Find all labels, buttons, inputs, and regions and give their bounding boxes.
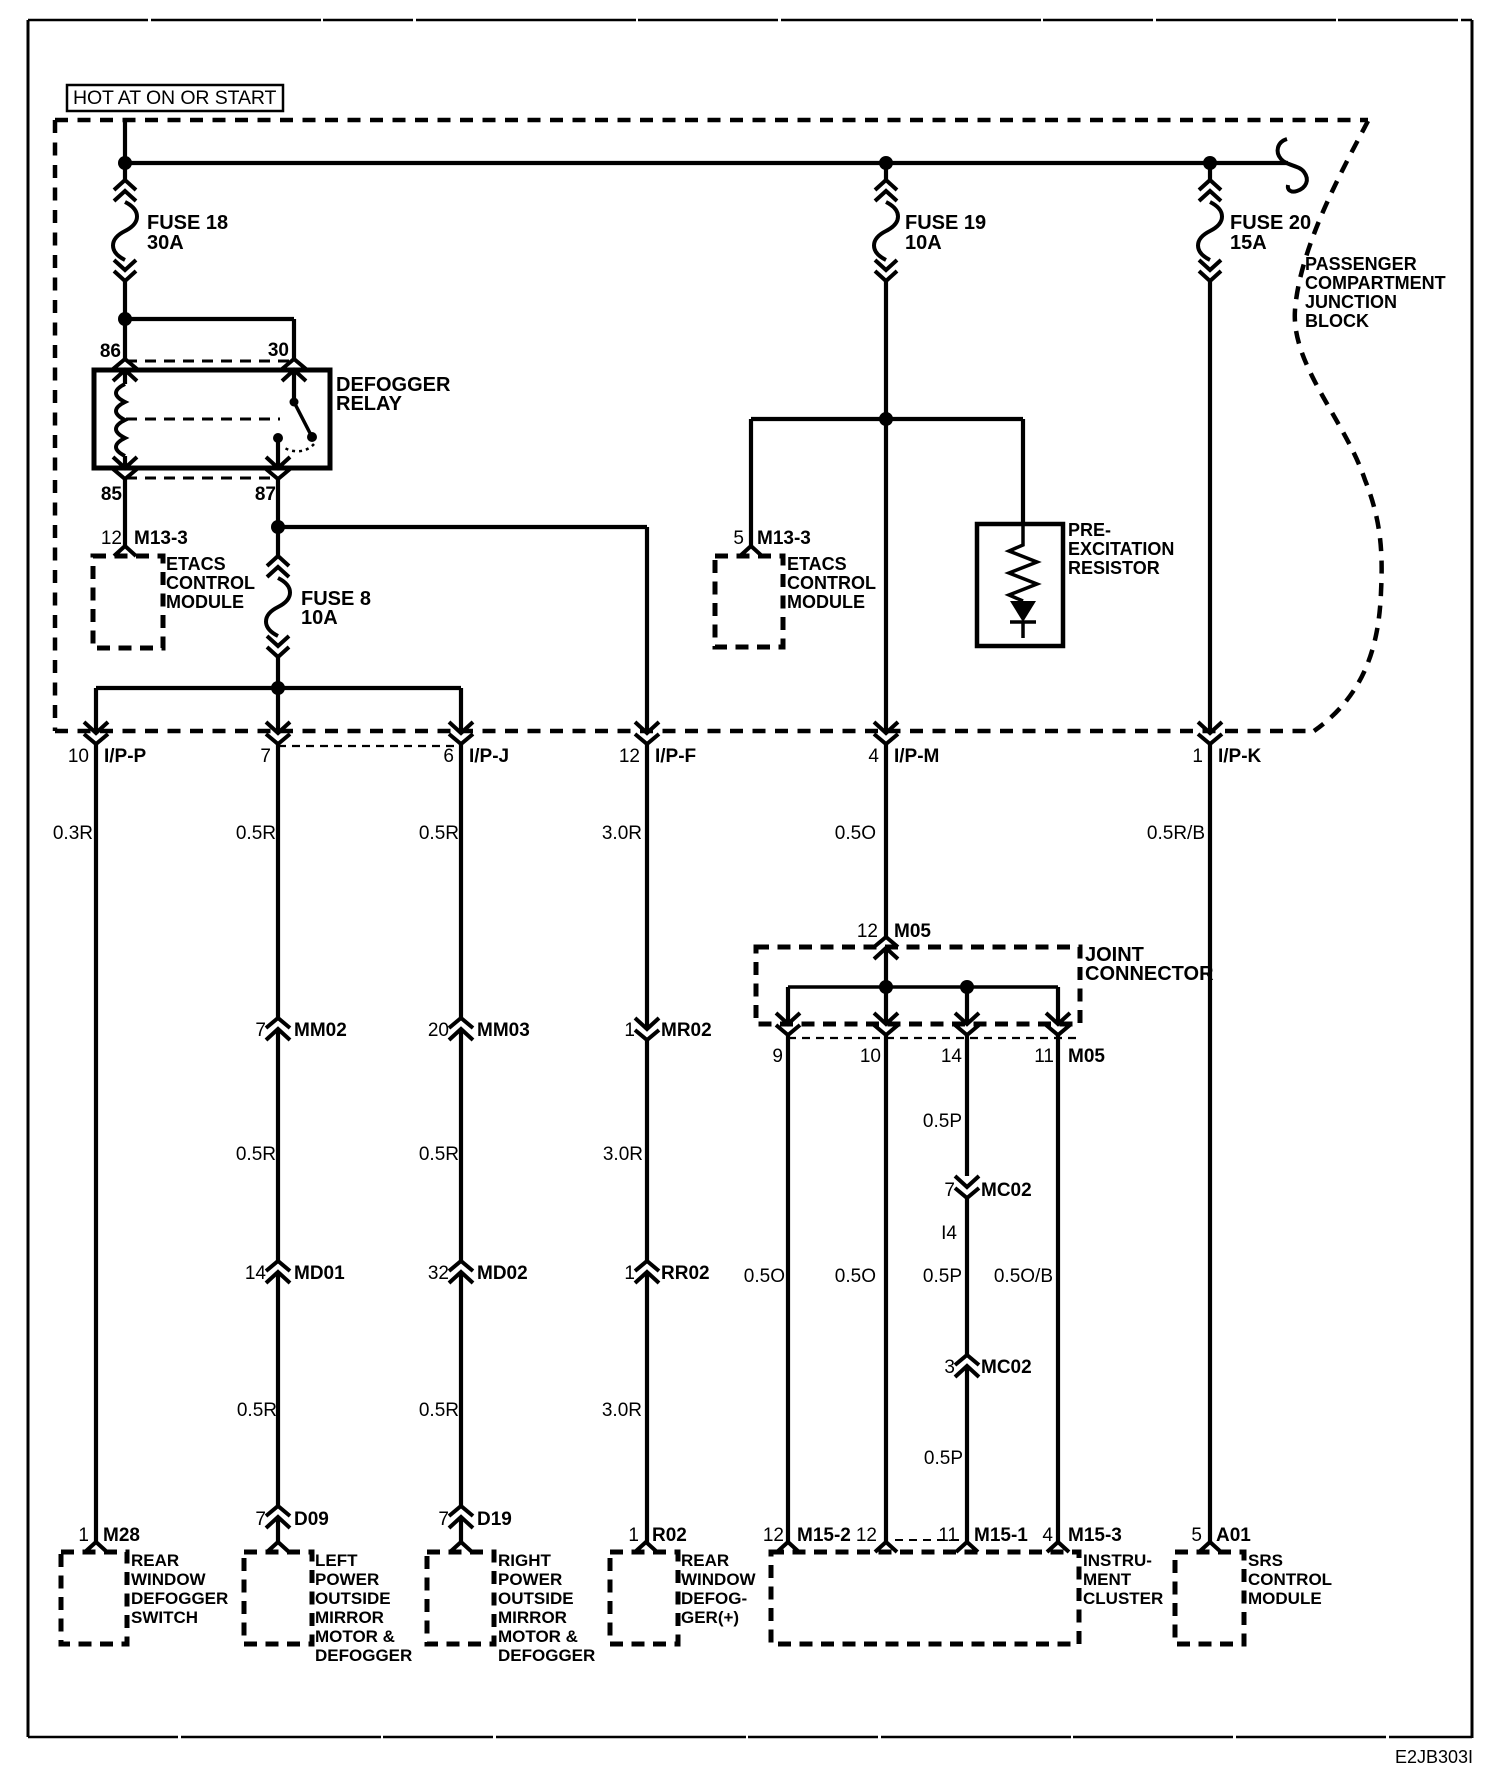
svg-text:4: 4	[868, 746, 879, 767]
svg-text:86: 86	[100, 341, 121, 362]
connector 1 R02	[628, 1525, 686, 1552]
connector 7 I/P	[260, 722, 290, 767]
svg-text:REAR: REAR	[681, 1551, 729, 1570]
svg-text:0.3R: 0.3R	[53, 823, 93, 844]
wire: fuse19 branch to ETACS and resistor	[751, 419, 1023, 546]
wire: main power bus	[125, 161, 1288, 165]
node: 87 branch to I/P-F	[271, 520, 285, 534]
pre-excitation resistor R1	[977, 520, 1174, 646]
svg-text:3.0R: 3.0R	[602, 1400, 642, 1421]
wire: connector body dash	[895, 1539, 962, 1541]
svg-text:10: 10	[860, 1046, 881, 1067]
connector 1 MR02	[624, 1018, 711, 1041]
svg-text:1: 1	[1192, 746, 1203, 767]
wire: branch to I/P-F	[278, 527, 647, 733]
connector 14 MD01	[245, 1261, 345, 1284]
right power outside mirror box	[427, 1551, 595, 1665]
svg-text:3: 3	[944, 1357, 955, 1378]
svg-text:SWITCH: SWITCH	[131, 1608, 198, 1627]
svg-text:3.0R: 3.0R	[603, 1144, 643, 1165]
svg-text:D09: D09	[294, 1509, 329, 1530]
svg-text:FUSE 19: FUSE 19	[905, 212, 986, 234]
svg-text:10A: 10A	[301, 607, 338, 629]
svg-text:CONNECTOR: CONNECTOR	[1085, 963, 1214, 985]
svg-text:1: 1	[78, 1525, 89, 1546]
connector 12 (second)	[856, 1525, 897, 1552]
svg-text:MD01: MD01	[294, 1263, 345, 1284]
svg-text:MENT: MENT	[1083, 1570, 1132, 1589]
fuse 8 10A	[266, 556, 371, 657]
wire: I/P-P to M28 (0.3R)	[94, 744, 98, 1542]
svg-text:0.5O: 0.5O	[835, 823, 876, 844]
label PASSENGER COMPARTMENT JUNCTION BLOCK	[1305, 254, 1446, 331]
svg-text:7: 7	[438, 1509, 449, 1530]
wire: branch to I/P-P and I/P-J	[96, 688, 461, 733]
svg-text:RIGHT: RIGHT	[498, 1551, 552, 1570]
svg-text:FUSE 20: FUSE 20	[1230, 212, 1311, 234]
svg-text:0.5O/B: 0.5O/B	[994, 1266, 1053, 1287]
connector 3 MC02	[944, 1355, 1031, 1378]
instrument cluster box	[771, 1551, 1163, 1644]
svg-text:MR02: MR02	[661, 1020, 712, 1041]
svg-text:MODULE: MODULE	[166, 592, 244, 612]
node: bus/fuse20 junction	[1203, 156, 1217, 170]
svg-text:15A: 15A	[1230, 232, 1267, 254]
svg-text:M15-1: M15-1	[974, 1525, 1028, 1546]
passenger compartment junction block dashed outline	[55, 118, 1368, 123]
svg-text:MC02: MC02	[981, 1357, 1032, 1378]
svg-text:I4: I4	[941, 1223, 957, 1244]
svg-text:R02: R02	[652, 1525, 687, 1546]
svg-text:RR02: RR02	[661, 1263, 710, 1284]
svg-text:1: 1	[624, 1263, 635, 1284]
connector 5 M13-3	[733, 528, 810, 556]
node: D19 box entry fork	[450, 1542, 472, 1552]
node: relay branch junction	[118, 312, 132, 326]
svg-text:MM02: MM02	[294, 1020, 347, 1041]
connector 32 MD02	[428, 1261, 528, 1284]
svg-text:M15-3: M15-3	[1068, 1525, 1122, 1546]
svg-text:10A: 10A	[905, 232, 942, 254]
svg-text:14: 14	[941, 1046, 963, 1067]
svg-text:MD02: MD02	[477, 1263, 528, 1284]
svg-text:12: 12	[856, 1525, 877, 1546]
svg-text:E2JB303I: E2JB303I	[1395, 1747, 1473, 1767]
svg-text:12: 12	[101, 528, 122, 549]
svg-text:M05: M05	[894, 921, 931, 942]
svg-text:CLUSTER: CLUSTER	[1083, 1589, 1163, 1608]
wire: fuse18 to relay	[123, 281, 127, 359]
svg-text:3.0R: 3.0R	[602, 823, 642, 844]
svg-text:MOTOR &: MOTOR &	[498, 1627, 578, 1646]
connector 7 D09	[255, 1506, 328, 1530]
connector 4 M15-3	[1042, 1525, 1121, 1552]
fuse 20 15A	[1198, 163, 1311, 281]
connector 12 M15-2	[763, 1525, 851, 1552]
rear window defogger switch box	[61, 1551, 228, 1644]
svg-text:M13-3: M13-3	[134, 528, 188, 549]
node: bus/fuse19 junction	[879, 156, 893, 170]
svg-text:RESISTOR: RESISTOR	[1068, 558, 1160, 578]
svg-text:11: 11	[1034, 1046, 1054, 1067]
left power outside mirror box	[244, 1551, 412, 1665]
svg-text:SRS: SRS	[1248, 1551, 1283, 1570]
wire: I/P-M down (0.5O)	[884, 744, 888, 1542]
node: bus junction at 10	[879, 980, 893, 994]
svg-text:M28: M28	[103, 1525, 140, 1546]
connector 1 M28	[78, 1525, 140, 1552]
svg-text:0.5O: 0.5O	[835, 1266, 876, 1287]
wire: pin 85 to ETACS	[123, 479, 127, 546]
wire: I/P-J down (0.5R)	[459, 744, 463, 1542]
connector 6 I/P-J	[443, 722, 509, 767]
svg-text:CONTROL: CONTROL	[787, 573, 876, 593]
wire: I/P-F down (3.0R)	[645, 744, 649, 1542]
connector 10 M05 out	[874, 1013, 898, 1035]
svg-text:I/P-J: I/P-J	[469, 746, 509, 767]
svg-text:EXCITATION: EXCITATION	[1068, 539, 1174, 559]
svg-text:DEFOG-: DEFOG-	[681, 1589, 747, 1608]
svg-text:JUNCTION: JUNCTION	[1305, 292, 1397, 312]
label HOT AT ON OR START	[67, 85, 283, 111]
svg-text:9: 9	[772, 1046, 783, 1067]
connector 12 M13-3	[101, 528, 188, 556]
svg-text:87: 87	[255, 484, 276, 505]
svg-text:11: 11	[938, 1525, 958, 1546]
wire: M05-11 to M15-3 (0.5O/B)	[1056, 1035, 1060, 1542]
svg-text:0.5P: 0.5P	[924, 1448, 963, 1469]
svg-text:0.5R: 0.5R	[237, 1400, 277, 1421]
connector 7 MM02	[255, 1018, 346, 1041]
svg-text:30A: 30A	[147, 232, 184, 254]
connector 5 A01	[1191, 1525, 1251, 1552]
svg-text:12: 12	[763, 1525, 784, 1546]
wire: branch to relay pin 30	[125, 319, 294, 359]
connector 20 MM03	[428, 1018, 530, 1041]
svg-text:REAR: REAR	[131, 1551, 179, 1570]
svg-text:0.5R: 0.5R	[236, 1144, 276, 1165]
connector 12 I/P-F	[619, 722, 696, 767]
svg-text:OUTSIDE: OUTSIDE	[315, 1589, 391, 1608]
connector 11 M05 out	[1046, 1013, 1070, 1035]
wire: joint connector bus	[788, 985, 1058, 989]
ETACS control module (left)	[93, 554, 255, 648]
svg-text:HOT AT ON OR START: HOT AT ON OR START	[73, 87, 277, 109]
svg-text:12: 12	[619, 746, 640, 767]
wire: fuse8 to I/P connectors	[276, 657, 280, 733]
svg-text:0.5O: 0.5O	[744, 1266, 785, 1287]
node: D09 box entry fork	[267, 1542, 289, 1552]
svg-text:D19: D19	[477, 1509, 512, 1530]
svg-text:MM03: MM03	[477, 1020, 530, 1041]
svg-text:COMPARTMENT: COMPARTMENT	[1305, 273, 1446, 293]
svg-text:4: 4	[1042, 1525, 1053, 1546]
joint connector box	[756, 944, 1214, 1024]
wire: fuse20 down to I/P-K	[1208, 281, 1212, 733]
wire: M05-9 to M15-2 (0.5O)	[786, 1035, 790, 1542]
svg-text:WINDOW: WINDOW	[131, 1570, 207, 1589]
svg-text:32: 32	[428, 1263, 449, 1284]
svg-text:7: 7	[255, 1509, 266, 1530]
svg-text:5: 5	[733, 528, 744, 549]
svg-text:FUSE 18: FUSE 18	[147, 212, 228, 234]
node: fuse19 branch junction	[879, 412, 893, 426]
wire: pin 87 down	[276, 479, 280, 556]
connector 1 I/P-K	[1192, 722, 1261, 767]
svg-text:DEFOGGER: DEFOGGER	[131, 1589, 228, 1608]
svg-text:0.5P: 0.5P	[923, 1111, 962, 1132]
svg-text:M15-2: M15-2	[797, 1525, 851, 1546]
svg-text:CONTROL: CONTROL	[166, 573, 255, 593]
svg-text:5: 5	[1191, 1525, 1202, 1546]
svg-text:MIRROR: MIRROR	[315, 1608, 384, 1627]
wire: fuse19 down to I/P-M	[884, 281, 888, 733]
svg-text:M13-3: M13-3	[757, 528, 811, 549]
connector 7 D19	[438, 1506, 511, 1530]
svg-text:MC02: MC02	[981, 1180, 1032, 1201]
wire: M05-14 to M15-1 (0.5P)	[965, 1035, 969, 1542]
connector 4 I/P-M	[868, 722, 939, 767]
rear window defogger(+) box	[610, 1551, 757, 1644]
connector 1 RR02	[624, 1261, 709, 1284]
svg-text:7: 7	[255, 1020, 266, 1041]
svg-text:OUTSIDE: OUTSIDE	[498, 1589, 574, 1608]
connector 9 M05 out	[776, 1013, 800, 1035]
svg-text:GER(+): GER(+)	[681, 1608, 739, 1627]
svg-text:PRE-: PRE-	[1068, 520, 1111, 540]
svg-text:12: 12	[857, 921, 878, 942]
connector 11 M15-1	[938, 1525, 1028, 1552]
svg-text:7: 7	[944, 1180, 955, 1201]
connector 10 I/P-P	[68, 722, 147, 767]
svg-text:14: 14	[245, 1263, 267, 1284]
svg-text:LEFT: LEFT	[315, 1551, 358, 1570]
svg-text:85: 85	[101, 484, 123, 505]
svg-text:DEFOGGER: DEFOGGER	[315, 1646, 412, 1665]
svg-text:1: 1	[628, 1525, 639, 1546]
svg-text:10: 10	[68, 746, 89, 767]
svg-text:20: 20	[428, 1020, 449, 1041]
node: bus/fuse18 junction	[118, 156, 132, 170]
svg-text:A01: A01	[1216, 1525, 1251, 1546]
svg-text:0.5P: 0.5P	[923, 1266, 962, 1287]
connector 14 M05 out	[955, 1013, 979, 1035]
connector 12 M05	[857, 921, 932, 959]
fuse 18 30A	[113, 180, 228, 281]
svg-text:0.5R: 0.5R	[419, 1144, 459, 1165]
node: distribution junction	[271, 681, 285, 695]
svg-text:MOTOR &: MOTOR &	[315, 1627, 395, 1646]
wire: connector body dash	[278, 745, 461, 747]
defogger relay K1	[94, 340, 451, 505]
svg-text:PASSENGER: PASSENGER	[1305, 254, 1417, 274]
svg-text:1: 1	[624, 1020, 635, 1041]
wire end curl	[1278, 139, 1307, 192]
svg-text:30: 30	[268, 340, 289, 361]
fuse 19 10A	[874, 163, 986, 281]
svg-text:I/P-K: I/P-K	[1218, 746, 1262, 767]
svg-text:POWER: POWER	[498, 1570, 562, 1589]
svg-text:0.5R/B: 0.5R/B	[1147, 823, 1205, 844]
svg-text:I/P-F: I/P-F	[655, 746, 696, 767]
svg-text:CONTROL: CONTROL	[1248, 1570, 1332, 1589]
svg-text:0.5R: 0.5R	[236, 823, 276, 844]
svg-text:MODULE: MODULE	[787, 592, 865, 612]
wire: I/P-K down (0.5R/B)	[1208, 744, 1212, 1542]
svg-text:0.5R: 0.5R	[419, 1400, 459, 1421]
svg-text:RELAY: RELAY	[336, 393, 403, 415]
svg-text:DEFOGGER: DEFOGGER	[498, 1646, 595, 1665]
wire: connector body dash	[788, 1037, 1080, 1039]
wire: feed from block top to power bus	[123, 120, 127, 180]
svg-text:BLOCK: BLOCK	[1305, 311, 1369, 331]
svg-text:7: 7	[260, 746, 271, 767]
svg-text:ETACS: ETACS	[166, 554, 226, 574]
svg-text:6: 6	[443, 746, 454, 767]
svg-text:MIRROR: MIRROR	[498, 1608, 567, 1627]
node: bus junction at 14	[960, 980, 974, 994]
wire: 7 down (0.5R)	[276, 744, 280, 1542]
wire: bus drops	[788, 987, 1058, 1024]
svg-text:MODULE: MODULE	[1248, 1589, 1322, 1608]
SRS control module box	[1175, 1551, 1332, 1644]
connector 7 MC02	[944, 1176, 1031, 1201]
svg-text:0.5R: 0.5R	[419, 823, 459, 844]
svg-text:I/P-M: I/P-M	[894, 746, 939, 767]
svg-text:M05: M05	[1068, 1046, 1105, 1067]
svg-text:POWER: POWER	[315, 1570, 379, 1589]
svg-text:ETACS: ETACS	[787, 554, 847, 574]
svg-text:WINDOW: WINDOW	[681, 1570, 757, 1589]
ETACS control module (center)	[715, 554, 876, 647]
svg-text:INSTRU-: INSTRU-	[1083, 1551, 1152, 1570]
svg-text:I/P-P: I/P-P	[104, 746, 147, 767]
